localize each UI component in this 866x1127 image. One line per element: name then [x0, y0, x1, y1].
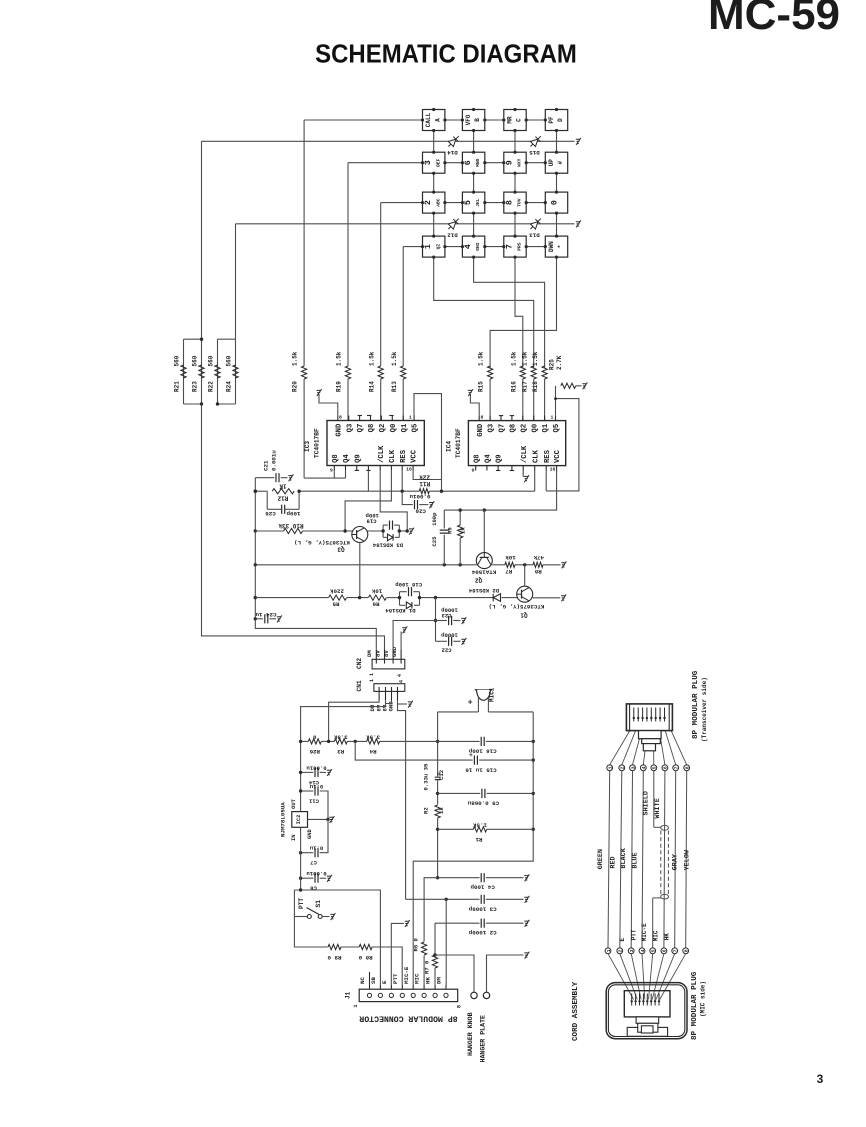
svg-text:0.33u 35: 0.33u 35	[423, 763, 430, 790]
ground	[524, 874, 529, 881]
svg-text:HANGER KNOB: HANGER KNOB	[467, 1012, 474, 1056]
svg-text:C20: C20	[415, 508, 426, 515]
svg-text:Q8: Q8	[510, 424, 518, 433]
junction	[200, 402, 203, 405]
junction	[502, 161, 505, 164]
svg-text:Q0: Q0	[390, 424, 398, 433]
svg-text:E: E	[619, 938, 626, 942]
svg-text:DM: DM	[366, 650, 373, 657]
ground	[330, 913, 335, 920]
junction	[461, 245, 464, 248]
svg-text:Q1: Q1	[520, 611, 528, 618]
svg-text:MIC: MIC	[652, 930, 659, 941]
junction	[641, 717, 643, 719]
svg-text:5: 5	[652, 766, 658, 769]
pin tick	[367, 415, 371, 417]
svg-text:8V: 8V	[383, 650, 390, 657]
svg-text:1: 1	[369, 673, 375, 676]
wire MIC pin with R6	[423, 956, 425, 986]
key switch DWN/*	[545, 236, 567, 257]
wire CN2 8V2 to C23 node	[393, 621, 435, 651]
svg-text:47k: 47k	[533, 554, 544, 561]
wire col4 to R15	[490, 247, 556, 368]
key switch 6/MNO	[462, 152, 484, 173]
svg-text:5: 5	[463, 200, 473, 205]
capacitor C23 1000p	[436, 620, 447, 622]
pin	[497, 466, 499, 471]
svg-text:OUT: OUT	[291, 798, 297, 808]
svg-text:8: 8	[481, 415, 484, 421]
junction	[544, 118, 547, 121]
svg-text:DM: DM	[436, 977, 443, 984]
junction	[525, 118, 528, 121]
junction	[459, 563, 462, 566]
svg-text:1.5k: 1.5k	[368, 351, 375, 366]
svg-text:Q7: Q7	[357, 424, 365, 433]
transistor Q1 KTC3875	[517, 586, 533, 602]
resistor bank R21-R24 wires	[184, 338, 202, 340]
ground	[405, 920, 410, 927]
svg-text:C22: C22	[441, 647, 452, 654]
pin	[337, 416, 339, 421]
junction	[555, 151, 558, 154]
resistor R14 1.5k	[378, 366, 383, 379]
wire W2	[255, 564, 476, 566]
svg-text:GND: GND	[307, 829, 313, 839]
svg-text:SCHEMATIC DIAGRAM: SCHEMATIC DIAGRAM	[315, 41, 577, 69]
svg-text:UP: UP	[548, 159, 555, 167]
junction	[358, 596, 361, 599]
wire key column	[556, 120, 558, 247]
svg-text:R26: R26	[309, 748, 320, 755]
svg-text:Q5: Q5	[412, 424, 420, 433]
svg-text:C25: C25	[431, 536, 438, 547]
junction	[406, 529, 409, 532]
wire Q1 collector	[524, 565, 526, 586]
junction	[254, 490, 257, 493]
wire	[402, 379, 404, 421]
svg-text:CN2: CN2	[356, 658, 363, 669]
IC IC2 NJM78L05UA regulator	[292, 812, 308, 828]
capacitor C16 100p	[438, 740, 480, 742]
svg-text:4: 4	[640, 949, 646, 952]
svg-text:C26: C26	[265, 510, 276, 517]
wire mic leads	[438, 711, 479, 713]
resistor R18 1.5k	[542, 366, 547, 379]
junction	[434, 619, 437, 622]
junction	[555, 191, 558, 194]
junction	[633, 717, 635, 719]
key switch 0	[545, 192, 567, 213]
key switch 9/WXY	[504, 152, 526, 173]
junction	[461, 161, 464, 164]
svg-text:MIC: MIC	[414, 973, 421, 984]
svg-text:HANGER PLATE: HANGER PLATE	[480, 1015, 487, 1063]
junction	[513, 212, 516, 215]
svg-text:3.9k: 3.9k	[333, 733, 347, 740]
pin	[356, 466, 358, 471]
junction	[483, 201, 486, 204]
ground	[561, 561, 566, 568]
svg-text:C3 1000p: C3 1000p	[468, 905, 496, 912]
junction	[525, 201, 528, 204]
diode D15	[528, 134, 544, 150]
capacitor C4 100p	[438, 877, 480, 879]
svg-text:D3 KDS184: D3 KDS184	[372, 541, 403, 548]
junction	[525, 245, 528, 248]
junction	[440, 490, 443, 493]
wire CN1 DM down-left	[329, 700, 380, 741]
svg-text:RED: RED	[609, 856, 617, 868]
svg-text:CLK: CLK	[389, 449, 397, 463]
svg-text:D13: D13	[529, 231, 540, 238]
wire IC4 CLK to W1	[534, 471, 536, 492]
svg-text:VCC: VCC	[411, 449, 419, 463]
svg-text:MR: MR	[506, 116, 513, 124]
svg-text:R12: R12	[277, 494, 288, 501]
capacitor C7 0.1u	[301, 852, 314, 854]
junction	[502, 201, 505, 204]
svg-text:2.7K: 2.7K	[556, 355, 563, 370]
junction	[354, 740, 357, 743]
pin	[555, 416, 557, 421]
junction	[554, 397, 557, 400]
wire Q2 base riser	[483, 510, 485, 552]
junction	[254, 529, 257, 532]
junction	[634, 1000, 636, 1002]
junction	[461, 201, 464, 204]
numbered terminals top	[607, 765, 613, 771]
svg-text:GREEN: GREEN	[597, 849, 605, 869]
wire S1 to R9/R8	[294, 917, 327, 948]
junction	[299, 740, 302, 743]
svg-text:9: 9	[330, 468, 333, 474]
junction	[544, 161, 547, 164]
svg-text:Q2: Q2	[520, 424, 528, 433]
svg-text:VFO: VFO	[465, 114, 472, 125]
svg-text:6: 6	[463, 160, 473, 165]
svg-text:#: #	[557, 161, 564, 165]
svg-text:S1: S1	[315, 900, 322, 908]
plug fan-out	[610, 731, 630, 765]
wire left rail RL2	[255, 478, 376, 650]
wire DM pin riser	[445, 899, 447, 985]
wire key column	[514, 120, 516, 247]
diode D2 KDS184	[493, 594, 500, 602]
switch lever	[307, 908, 320, 915]
svg-text:8V: 8V	[374, 650, 381, 657]
key switch VFO/B	[462, 110, 484, 131]
junction	[646, 1000, 648, 1002]
svg-text:R2: R2	[423, 807, 430, 814]
junction	[472, 172, 475, 175]
svg-text:9: 9	[472, 468, 475, 474]
pin	[489, 416, 491, 421]
junction	[432, 108, 435, 111]
resistor R4 3.9k	[367, 739, 380, 744]
junction	[432, 151, 435, 154]
svg-text:100p: 100p	[431, 512, 438, 526]
resistor R5 220k	[329, 595, 347, 600]
junction	[654, 1000, 656, 1002]
ground	[576, 138, 581, 145]
svg-text:DWN: DWN	[548, 241, 555, 252]
svg-text:D15: D15	[529, 149, 540, 156]
junction	[472, 256, 475, 259]
connector J1 8P modular	[369, 972, 371, 993]
svg-text:(MIC side): (MIC side)	[700, 981, 707, 1017]
resistor R9 0	[328, 944, 341, 949]
pin	[500, 416, 502, 421]
svg-text:100p: 100p	[286, 510, 300, 517]
resistor R8 0	[359, 944, 372, 949]
wire W1 RES/R11 line	[255, 490, 267, 492]
junction	[432, 212, 435, 215]
ground CN2 GND	[400, 632, 402, 651]
resistor R7 10k	[505, 562, 515, 567]
junction	[555, 212, 558, 215]
wire row4	[403, 246, 545, 248]
svg-text:R3: R3	[337, 748, 344, 755]
capacitor C21 0.001u	[255, 477, 274, 479]
pin	[379, 466, 381, 471]
svg-text:R6: R6	[372, 600, 379, 607]
wire row1 line down left of IC3	[303, 379, 305, 478]
transistor Q3 KTC3875	[352, 527, 368, 543]
pin tick	[496, 470, 500, 472]
ground	[317, 389, 322, 396]
junction	[502, 118, 505, 121]
svg-text:8: 8	[456, 1005, 462, 1008]
svg-text:R21: R21	[174, 381, 181, 392]
svg-text:1.5k: 1.5k	[391, 351, 398, 366]
svg-text:4: 4	[397, 674, 403, 677]
svg-text:PTT: PTT	[630, 929, 637, 940]
svg-text:/CLK: /CLK	[521, 445, 529, 463]
svg-text:3: 3	[817, 1072, 824, 1086]
svg-text:8P MODULAR PLUG: 8P MODULAR PLUG	[692, 670, 700, 739]
svg-text:TUV: TUV	[517, 198, 523, 207]
wire 741 line	[301, 740, 309, 742]
junction	[555, 108, 558, 111]
pin	[556, 466, 558, 471]
key switch 3/DEF	[423, 152, 445, 173]
pin	[391, 416, 393, 421]
resistor R24 560	[233, 365, 238, 378]
junction	[436, 792, 439, 795]
pin tick	[510, 470, 514, 472]
svg-text:1: 1	[353, 1004, 359, 1007]
wire	[235, 224, 237, 339]
svg-text:C15 1u 16: C15 1u 16	[465, 767, 497, 774]
resistor R11 22k	[419, 489, 429, 494]
shield wire with braid	[653, 771, 655, 828]
junction	[523, 563, 526, 566]
wire col3 to R16	[515, 247, 523, 368]
junction	[663, 717, 665, 719]
junction	[637, 717, 639, 719]
svg-text:DEF: DEF	[435, 158, 441, 167]
svg-text:WHITE: WHITE	[654, 798, 662, 818]
capacitor C15 1u 16V	[355, 741, 473, 760]
ground	[409, 528, 414, 535]
junction	[472, 212, 475, 215]
resistor R17 1.5k	[531, 366, 536, 379]
svg-text:C7: C7	[310, 859, 317, 866]
svg-text:MIC-E: MIC-E	[403, 966, 410, 984]
svg-text:C: C	[516, 118, 523, 122]
wire RL3 lower	[300, 827, 302, 890]
junction	[254, 563, 257, 566]
junction	[398, 596, 401, 599]
svg-text:TC4017BF: TC4017BF	[455, 428, 462, 458]
svg-text:R4: R4	[369, 748, 376, 755]
wire IC4 Q5/RES loop	[546, 399, 579, 491]
junction	[445, 898, 448, 901]
svg-text:Q7: Q7	[499, 424, 507, 433]
pin tick	[389, 415, 393, 417]
svg-text:C9 0.068u: C9 0.068u	[467, 800, 499, 807]
junction	[434, 596, 437, 599]
pin	[478, 416, 480, 421]
svg-text:1: 1	[550, 415, 553, 421]
pin	[413, 416, 415, 421]
svg-text:8P MODULAR CONNECTOR: 8P MODULAR CONNECTOR	[359, 1013, 457, 1022]
svg-text:R7: R7	[505, 568, 512, 575]
pin	[511, 416, 513, 421]
svg-text:R1: R1	[475, 836, 482, 843]
svg-text:SHIELD: SHIELD	[643, 791, 651, 815]
pin	[345, 466, 347, 471]
svg-text:GRAY: GRAY	[672, 853, 680, 870]
svg-text:1000p: 1000p	[440, 631, 457, 638]
junction	[461, 118, 464, 121]
wire Q3 emitter	[359, 543, 361, 598]
resistor R3 3.9k	[334, 739, 347, 744]
resistor R6 0 (MIC line)	[422, 942, 427, 955]
pin	[544, 416, 546, 421]
junction	[483, 161, 486, 164]
junction	[299, 789, 302, 792]
svg-text:Q5: Q5	[553, 424, 561, 433]
wire col1 to R17	[434, 247, 534, 368]
svg-text:R25: R25	[549, 359, 556, 370]
junction	[421, 245, 424, 248]
junction	[216, 402, 219, 405]
ground	[327, 875, 332, 882]
junction	[532, 740, 535, 743]
ground	[524, 952, 529, 959]
key switch 7/PRS	[504, 236, 526, 257]
svg-text:Q0: Q0	[531, 424, 539, 433]
capacitor C22 1000p	[436, 640, 447, 642]
svg-text:0: 0	[550, 200, 560, 205]
wire R8 to PTT pin	[372, 947, 402, 985]
key switch 8/TUV	[504, 192, 526, 213]
resistor R19 1.5k	[345, 366, 350, 379]
svg-text:3: 3	[629, 949, 635, 952]
key switch PF/D	[545, 110, 567, 131]
svg-text:C18 100p: C18 100p	[395, 581, 422, 588]
svg-text:A: A	[434, 118, 441, 122]
resistor R12 1K / capacitor C26 100p parallel	[272, 489, 294, 494]
svg-text:R8 0: R8 0	[358, 954, 372, 961]
svg-text:2: 2	[618, 949, 624, 952]
ground	[461, 617, 466, 624]
svg-text:MNO: MNO	[475, 158, 481, 167]
svg-text:Q9: Q9	[355, 454, 363, 463]
diode D14	[446, 134, 462, 150]
numbered terminals bottom	[605, 948, 611, 954]
svg-text:8: 8	[504, 200, 514, 205]
junction	[327, 740, 330, 743]
svg-text:560: 560	[174, 355, 181, 366]
wire E pin to ground	[391, 923, 404, 985]
connector CN1	[378, 687, 380, 700]
wire IC3 Q5 loop	[414, 394, 442, 492]
junction	[443, 118, 446, 121]
svg-text:IC2: IC2	[296, 815, 302, 825]
resistor R23 560	[199, 365, 204, 378]
svg-text:CALL: CALL	[425, 112, 432, 127]
junction	[381, 529, 384, 532]
pin	[401, 466, 403, 471]
junction	[299, 851, 302, 854]
ground	[524, 920, 529, 927]
capacitor C19 100p / diode D3 KDS184 parallel	[382, 525, 384, 537]
svg-text:D2 KDS184: D2 KDS184	[468, 587, 499, 594]
svg-text:220k: 220k	[330, 588, 344, 595]
svg-text:MIC1: MIC1	[488, 687, 495, 702]
ground	[524, 896, 529, 903]
svg-text:22k: 22k	[419, 474, 430, 481]
pin	[348, 416, 350, 421]
svg-text:R6 0: R6 0	[413, 937, 420, 951]
svg-text:R11: R11	[419, 480, 430, 487]
svg-text:*: *	[557, 245, 564, 249]
junction	[421, 161, 424, 164]
pin	[359, 416, 361, 421]
resistor R1 1.5k	[438, 828, 474, 830]
pin	[486, 466, 488, 471]
svg-text:8: 8	[684, 949, 690, 952]
resistor R15 1.5k	[488, 366, 493, 379]
junction	[650, 717, 652, 719]
junction	[299, 877, 302, 880]
svg-text:NJM78L05UA: NJM78L05UA	[279, 802, 286, 837]
key switch 1/QZ	[423, 236, 445, 257]
svg-text:HK: HK	[664, 933, 671, 941]
svg-text:560: 560	[208, 355, 215, 366]
svg-text:0.001u: 0.001u	[306, 870, 326, 877]
svg-text:KTC3875(Y, G, L): KTC3875(Y, G, L)	[489, 603, 545, 610]
svg-text:Q2: Q2	[379, 424, 387, 433]
svg-text:5: 5	[651, 949, 657, 952]
wire	[533, 379, 535, 421]
pin	[412, 466, 414, 471]
capacitor C6 0.001u	[301, 877, 314, 879]
svg-text:Q8: Q8	[332, 454, 340, 463]
svg-text:Q3: Q3	[488, 424, 496, 433]
microphone MIC1	[475, 689, 492, 691]
svg-text:CORD ASSEMBLY: CORD ASSEMBLY	[572, 981, 580, 1041]
wire IC4 VCC rail	[444, 471, 556, 511]
svg-text:SB: SB	[370, 977, 377, 984]
junction	[525, 161, 528, 164]
svg-text:R24: R24	[226, 381, 233, 392]
junction	[432, 256, 435, 259]
svg-text:QZ: QZ	[435, 244, 441, 250]
